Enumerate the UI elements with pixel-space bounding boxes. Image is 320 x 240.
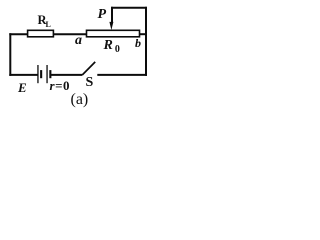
wire wiper bracket top horizontal bbox=[111, 7, 147, 9]
rheostat R0 body bbox=[87, 30, 140, 37]
label a bbox=[75, 33, 82, 49]
resistor R_L body bbox=[28, 30, 54, 37]
wiper arrowhead bbox=[109, 22, 113, 30]
label E bbox=[18, 80, 27, 96]
label R_L bbox=[38, 13, 51, 29]
wire right border vertical bbox=[145, 7, 147, 76]
label b bbox=[135, 36, 141, 51]
battery E short plate 2 bbox=[49, 70, 51, 78]
label R0 bbox=[104, 38, 120, 55]
wire wiper vertical bbox=[111, 7, 113, 23]
switch S blade bbox=[82, 62, 95, 75]
wire switch to bottom-right corner bbox=[97, 74, 147, 76]
label P bbox=[98, 7, 107, 23]
wire R_L to rheostat bbox=[53, 33, 86, 35]
wire top-left horizontal (left border to R_L) bbox=[9, 33, 28, 35]
battery E long plate 2 bbox=[46, 65, 47, 83]
wire rheostat right terminal to right border bbox=[140, 33, 148, 35]
wire bottom-left horizontal (to battery) bbox=[9, 74, 38, 76]
label S bbox=[86, 75, 94, 91]
label (a) bbox=[71, 91, 89, 109]
wire left border vertical bbox=[9, 33, 11, 76]
battery E long plate 1 bbox=[37, 65, 38, 83]
label r=0 bbox=[50, 78, 70, 94]
battery E short plate 1 bbox=[40, 70, 42, 78]
wire battery to switch bbox=[51, 74, 82, 76]
